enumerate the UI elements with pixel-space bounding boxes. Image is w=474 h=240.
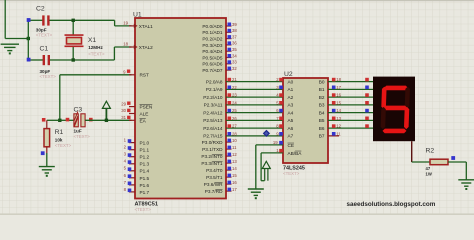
svg-text:P1.3: P1.3	[140, 162, 150, 167]
pin P1.3 pin4	[129, 163, 135, 165]
svg-text:19: 19	[123, 21, 128, 26]
wire junction to C3 left	[60, 119, 74, 121]
wire jog down to XTAL1 row	[114, 20, 116, 26]
wire B6 to display segment	[328, 127, 373, 129]
svg-text:XTAL1: XTAL1	[139, 24, 153, 29]
svg-text:38: 38	[232, 28, 237, 33]
pin EA pin31	[129, 119, 135, 121]
svg-text:R2: R2	[426, 148, 435, 155]
pin P0.2/AD2 pin37	[226, 38, 232, 40]
crystal X1	[65, 35, 84, 46]
wire RST vertical	[59, 75, 61, 121]
pin B4 pin14	[332, 109, 336, 113]
wire B3 to display segment	[328, 104, 373, 106]
pin P0.7/AD7 pin32	[226, 69, 232, 71]
pin P2.6/A14 pin27	[228, 124, 232, 128]
ground GND2 (under R1)	[39, 167, 55, 173]
node C1 left terminal state (blue)	[27, 58, 31, 62]
capacitor C3 (polarized 1uF)	[74, 111, 85, 126]
segment a (lit)	[384, 86, 408, 91]
pin P2.3/A11 pin24	[228, 101, 232, 105]
svg-text:P1.7: P1.7	[140, 190, 150, 195]
wire RST horizontal	[60, 74, 132, 76]
pin P0.6/AD6 pin33	[226, 63, 232, 65]
pin P3.4 pin14	[226, 169, 232, 171]
svg-text:13: 13	[232, 159, 237, 164]
svg-text:P3.4/T0: P3.4/T0	[206, 168, 223, 173]
svg-text:12MHz: 12MHz	[88, 45, 103, 50]
wire C1 left to corner	[28, 59, 43, 61]
segment e (dark)	[381, 107, 386, 129]
wire crystal top stub	[72, 20, 74, 34]
svg-text:12: 12	[232, 152, 237, 157]
node display segment pin state	[365, 109, 369, 113]
svg-text:17: 17	[336, 85, 341, 90]
pin B7 stub (unconnected)	[328, 135, 339, 137]
svg-text:A5: A5	[288, 118, 294, 123]
svg-text:B6: B6	[319, 126, 325, 131]
svg-text:P1.5: P1.5	[140, 176, 150, 181]
svg-text:12: 12	[336, 124, 341, 129]
svg-text:<TEXT>: <TEXT>	[283, 171, 300, 176]
svg-text:P0.5/AD5: P0.5/AD5	[202, 55, 222, 60]
svg-text:47: 47	[426, 166, 431, 171]
pin P1.5 pin6	[129, 177, 135, 179]
svg-text:P3.5/T1: P3.5/T1	[206, 175, 223, 180]
svg-text:P3.1/TXD: P3.1/TXD	[202, 147, 223, 152]
wire R2 to corner	[448, 161, 466, 163]
wire P2.1 to U2 A1	[226, 88, 283, 90]
svg-text:P3.6/WR: P3.6/WR	[204, 182, 223, 187]
pin P1.1 pin2	[129, 149, 135, 151]
wire corner up to XTAL2 row	[113, 47, 115, 60]
svg-text:saeedsolutions.blogspot.com: saeedsolutions.blogspot.com	[347, 201, 436, 208]
wire AB/BA to VCC	[261, 152, 283, 154]
node crystal-XTAL1 junction	[72, 19, 75, 22]
wire to XTAL2 pin	[114, 46, 131, 48]
svg-text:A2: A2	[288, 95, 294, 100]
power VCC terminal 2	[262, 161, 270, 180]
wire C2 right plate to jog	[49, 19, 114, 21]
pin P3.5 pin15	[226, 176, 232, 178]
svg-text:30: 30	[121, 108, 126, 113]
wire display common pin down	[411, 141, 413, 162]
wire R1 top to junction	[47, 119, 60, 121]
node R1 top state (red)	[42, 118, 46, 122]
svg-text:A6: A6	[288, 126, 294, 131]
pin P1.6 pin7	[129, 184, 135, 186]
svg-text:P1.0: P1.0	[140, 141, 150, 146]
svg-text:11: 11	[336, 131, 341, 136]
capacitor C2	[42, 15, 49, 25]
node RST state (red)	[127, 70, 130, 73]
svg-text:10: 10	[232, 138, 237, 143]
pin P1.2 pin3	[129, 156, 135, 158]
wire P2.7 to U2 A7	[226, 135, 283, 137]
svg-text:27: 27	[232, 124, 237, 129]
svg-text:B4: B4	[319, 110, 325, 115]
svg-text:39: 39	[232, 22, 237, 27]
svg-text:1uF: 1uF	[74, 129, 82, 134]
svg-text:14: 14	[232, 166, 237, 171]
wire C1 right plate to corner	[50, 59, 115, 61]
svg-text:RST: RST	[140, 73, 150, 78]
svg-text:B0: B0	[319, 79, 325, 84]
node RST-R1-C3 junction	[58, 119, 61, 122]
pin P3.2 pin12	[226, 155, 232, 157]
wire P2.5 to U2 A5	[226, 119, 283, 121]
svg-text:A3: A3	[288, 103, 294, 108]
svg-text:P0.3/AD3: P0.3/AD3	[202, 43, 222, 48]
resistor R2	[430, 159, 448, 165]
svg-text:B1: B1	[319, 87, 325, 92]
svg-text:11: 11	[232, 145, 237, 150]
svg-text:C2: C2	[36, 6, 45, 13]
svg-text:P2.5/A13: P2.5/A13	[203, 118, 223, 123]
capacitor C1	[43, 55, 50, 65]
svg-text:PSEN: PSEN	[140, 105, 153, 110]
wire crystal bottom stub	[72, 47, 74, 60]
svg-text:P0.2/AD2: P0.2/AD2	[202, 37, 222, 42]
svg-text:32: 32	[232, 66, 237, 71]
svg-text:P0.0/AD0: P0.0/AD0	[202, 24, 222, 29]
svg-text:26: 26	[232, 116, 237, 121]
pin P3.7 pin17	[226, 190, 232, 192]
svg-text:10k: 10k	[55, 138, 63, 143]
node PSEN state (red)	[127, 102, 130, 105]
svg-text:A4: A4	[288, 110, 294, 115]
svg-text:B2: B2	[319, 95, 325, 100]
wire CE to ground	[256, 144, 283, 146]
node display segment pin state	[365, 117, 369, 121]
pin P1.4 pin5	[129, 170, 135, 172]
ground GND3 (CE)	[248, 189, 264, 195]
svg-text:<TEXT>: <TEXT>	[36, 33, 53, 38]
svg-text:P2.6/A14: P2.6/A14	[203, 126, 223, 131]
svg-text:25: 25	[232, 108, 237, 113]
svg-text:31: 31	[121, 115, 126, 120]
node R1 bottom state (blue)	[41, 151, 45, 155]
wire P2.0 to U2 A0	[226, 81, 283, 83]
pin P0.0/AD0 pin39	[226, 25, 232, 27]
pin B0 pin18	[332, 78, 336, 82]
svg-text:19: 19	[273, 140, 278, 145]
node C2 left terminal state (blue)	[27, 18, 31, 22]
svg-text:P0.4/AD4: P0.4/AD4	[202, 49, 222, 54]
svg-text:21: 21	[232, 77, 237, 82]
svg-text:18: 18	[123, 42, 128, 47]
svg-text:R1: R1	[55, 129, 64, 136]
node C3 left state (red)	[66, 118, 70, 122]
svg-text:23: 23	[232, 93, 237, 98]
pin B7 pin11	[332, 132, 336, 136]
pin B5 pin13	[332, 117, 336, 121]
segment c (lit)	[404, 107, 409, 129]
pin P2.0/A8 pin21	[228, 78, 232, 82]
svg-text:P0.6/AD6: P0.6/AD6	[202, 62, 222, 67]
svg-text:<TEXT>: <TEXT>	[135, 207, 152, 212]
ground GND1 (left rail)	[1, 44, 19, 50]
wire corner vertical C2-C1	[27, 20, 29, 60]
node display segment pin state	[365, 78, 369, 82]
svg-text:A1: A1	[288, 87, 294, 92]
wire to XTAL1 pin	[115, 25, 132, 27]
pin B1 pin17	[332, 86, 336, 90]
resistor R1	[46, 120, 48, 128]
svg-text:18: 18	[336, 77, 341, 82]
pin P0.3/AD3 pin36	[226, 44, 232, 46]
svg-text:<TEXT>: <TEXT>	[74, 134, 91, 139]
svg-text:P0.7/AD7: P0.7/AD7	[202, 68, 222, 73]
svg-text:15: 15	[336, 100, 341, 105]
node EA state (red)	[127, 116, 130, 119]
pin P2.4/A12 pin25	[228, 109, 232, 113]
svg-text:U2: U2	[284, 71, 293, 78]
wire P2.4 to U2 A4	[226, 112, 283, 114]
pin RST pin9	[129, 74, 135, 76]
pin B6 pin12	[332, 124, 336, 128]
svg-text:C3: C3	[74, 107, 83, 114]
segment b (dark)	[405, 87, 410, 109]
pin P2.5/A13 pin26	[228, 117, 232, 121]
wire C2 left to corner	[28, 19, 42, 21]
svg-text:14: 14	[336, 108, 341, 113]
pin P2.7/A15 pin28	[228, 132, 232, 136]
svg-text:AB/BA: AB/BA	[288, 151, 303, 156]
pin P1.7 pin8	[129, 191, 135, 193]
wire gnd rail to C1/C2 junction	[5, 38, 28, 40]
svg-text:C1: C1	[40, 46, 49, 53]
svg-text:P1.6: P1.6	[140, 183, 150, 188]
pin PSEN pin29	[129, 106, 135, 108]
wire P2.3 to U2 A3	[226, 104, 283, 106]
pin P3.3 pin13	[226, 162, 232, 164]
svg-text:1W: 1W	[426, 172, 432, 177]
pin ALE pin30	[129, 113, 135, 115]
pin P0.1/AD1 pin38	[226, 31, 232, 33]
svg-text:28: 28	[232, 131, 237, 136]
svg-text:<TEXT>: <TEXT>	[88, 51, 105, 56]
pin B3 pin15	[332, 101, 336, 105]
wire B1 to display segment	[328, 88, 373, 90]
segment f (lit)	[381, 87, 386, 109]
pin XTAL2 pin18	[129, 46, 135, 48]
wire P2.6 to U2 A6	[226, 127, 283, 129]
svg-text:15: 15	[232, 173, 237, 178]
pin P1.0 pin1	[129, 142, 135, 144]
node display segment pin state	[365, 101, 369, 105]
svg-text:P2.1/A9: P2.1/A9	[206, 87, 223, 92]
power VCC terminal 1	[102, 101, 110, 120]
wire corner down to ground	[465, 162, 467, 180]
wire gnd rail vertical	[4, 0, 6, 39]
svg-text:P3.2/INT0: P3.2/INT0	[201, 154, 223, 159]
pin XTAL1 pin19	[129, 25, 135, 27]
svg-text:24: 24	[232, 100, 237, 105]
svg-text:<TEXT>: <TEXT>	[40, 74, 57, 79]
svg-text:B3: B3	[319, 103, 325, 108]
svg-text:X1: X1	[88, 37, 97, 44]
wire B0 to display segment	[328, 81, 373, 83]
node VCC tee junction	[105, 119, 108, 122]
node R2 right state (blue)	[451, 156, 455, 160]
wire B4 to display segment	[328, 112, 373, 114]
svg-text:A7: A7	[288, 134, 294, 139]
node display segment pin state	[365, 124, 369, 128]
7-segment display (digit 5)	[373, 77, 415, 142]
svg-text:A0: A0	[288, 79, 294, 84]
svg-text:P1.1: P1.1	[140, 148, 150, 153]
pin P2.1/A9 pin22	[228, 86, 232, 90]
svg-text:P2.4/A12: P2.4/A12	[203, 110, 223, 115]
svg-text:22: 22	[232, 85, 237, 90]
node crystal-XTAL2 junction	[72, 58, 75, 61]
node C3 right state (red)	[89, 118, 93, 122]
svg-text:EA: EA	[140, 119, 147, 124]
node A7 wire junction diamond	[264, 131, 270, 137]
svg-text:B5: B5	[319, 118, 325, 123]
pin B2 pin16	[332, 93, 336, 97]
pin P3.1 pin11	[226, 148, 232, 150]
node ALE state (red)	[127, 109, 130, 112]
node display segment pin state	[365, 93, 369, 97]
svg-text:17: 17	[232, 187, 237, 192]
svg-text:37: 37	[232, 34, 237, 39]
wire P2.2 to U2 A2	[226, 96, 283, 98]
svg-text:36: 36	[232, 41, 237, 46]
segment d (lit)	[382, 129, 406, 134]
svg-text:P1.4: P1.4	[140, 169, 150, 174]
svg-text:P1.2: P1.2	[140, 155, 150, 160]
svg-text:13: 13	[336, 116, 341, 121]
svg-text:<TEXT>: <TEXT>	[55, 143, 72, 148]
svg-text:P3.7/RD: P3.7/RD	[205, 189, 223, 194]
pin P2.2/A10 pin23	[228, 93, 232, 97]
pin P3.6 pin16	[226, 183, 232, 185]
segment g (lit)	[383, 106, 407, 111]
svg-text:P2.3/A11: P2.3/A11	[204, 103, 223, 108]
svg-text:B7: B7	[319, 134, 325, 139]
svg-text:P2.2/A10: P2.2/A10	[203, 95, 223, 100]
svg-text:16: 16	[232, 180, 237, 185]
wire B5 to display segment	[328, 119, 373, 121]
svg-text:P3.0/RXD: P3.0/RXD	[202, 140, 223, 145]
pin P3.0 pin10	[226, 141, 232, 143]
op U2 chip body 74LS245	[283, 78, 328, 163]
svg-text:16: 16	[336, 93, 341, 98]
node gnd tee junction	[27, 37, 30, 40]
svg-text:P2.0/A8: P2.0/A8	[206, 79, 223, 84]
pin P0.4/AD4 pin35	[226, 50, 232, 52]
svg-text:P0.1/AD1: P0.1/AD1	[202, 30, 222, 35]
wire display to R2	[412, 161, 430, 163]
op U1 chip body AT89C51	[135, 18, 226, 199]
ground GND4 (display)	[458, 180, 474, 186]
pin P0.5/AD5 pin34	[226, 57, 232, 59]
wire B2 to display segment	[328, 96, 373, 98]
svg-text:P2.7/A15: P2.7/A15	[203, 134, 223, 139]
svg-text:XTAL2: XTAL2	[139, 45, 153, 50]
svg-text:35: 35	[232, 47, 237, 52]
svg-text:CE: CE	[288, 143, 295, 148]
svg-text:U1: U1	[133, 12, 142, 19]
svg-text:P3.3/INT1: P3.3/INT1	[201, 161, 223, 166]
node display segment pin state	[365, 86, 369, 90]
svg-text:29: 29	[121, 101, 126, 106]
svg-text:ALE: ALE	[140, 111, 149, 116]
wire C3 right to EA pin	[85, 119, 131, 121]
svg-text:34: 34	[232, 53, 237, 58]
svg-text:33: 33	[232, 60, 237, 65]
wire R1 to ground	[46, 153, 48, 166]
